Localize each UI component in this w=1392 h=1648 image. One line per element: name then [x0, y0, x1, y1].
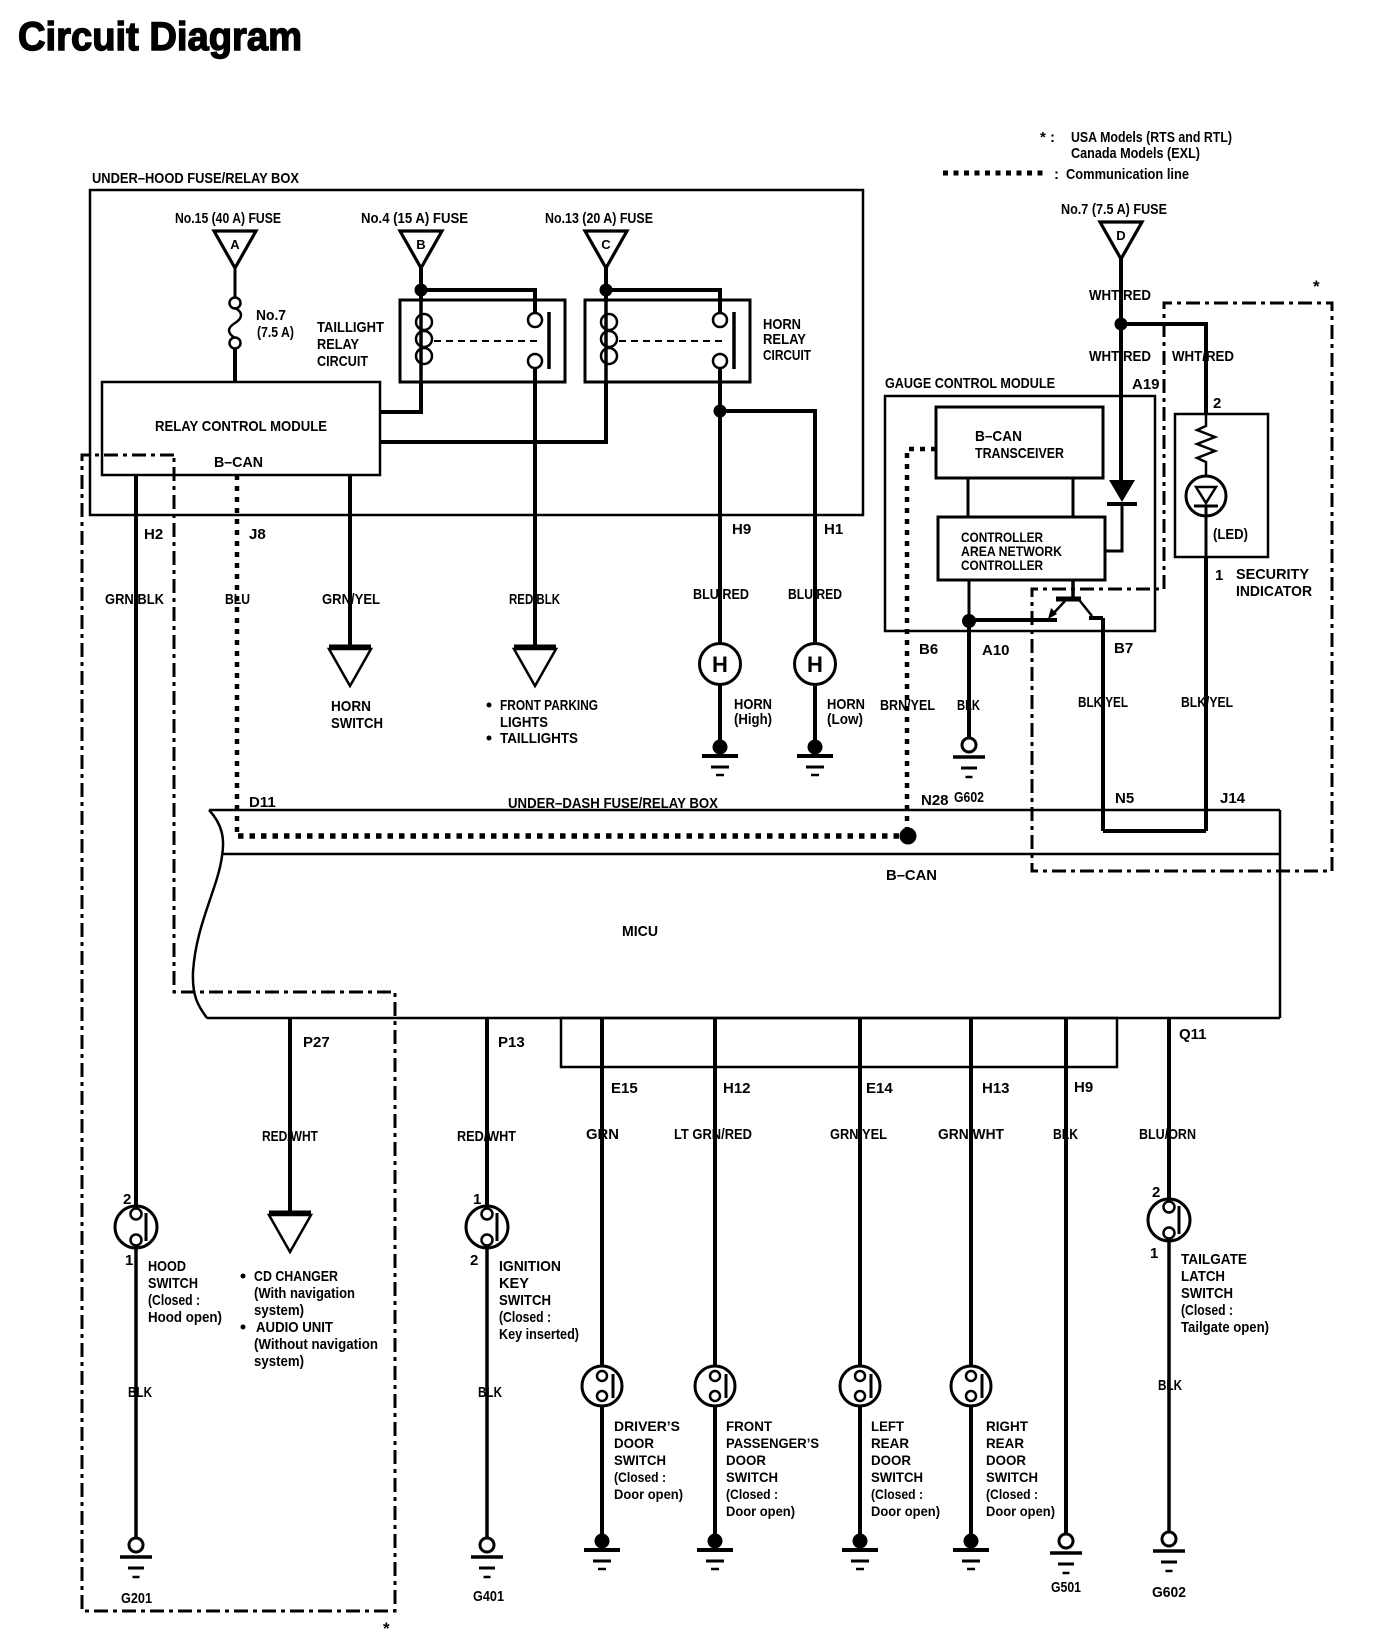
horn (low)	[795, 644, 836, 685]
svg-text:B: B	[416, 237, 425, 252]
ground G401	[471, 1538, 503, 1577]
horn relay	[585, 300, 750, 382]
svg-text:(Closed :: (Closed :	[986, 1486, 1038, 1502]
svg-text:GRN: GRN	[586, 1126, 619, 1143]
wire B-CAN communication line inside under-dash box	[238, 833, 901, 839]
wire fuse C to horn relay coil	[604, 268, 608, 302]
svg-text:No.4 (15 A) FUSE: No.4 (15 A) FUSE	[361, 210, 468, 227]
svg-text:D: D	[1116, 228, 1125, 243]
svg-text:E14: E14	[866, 1080, 893, 1097]
dash-dot optional-equipment boundary (right, USA models)	[1032, 303, 1332, 871]
svg-text:INDICATOR: INDICATOR	[1236, 583, 1312, 600]
svg-text:CONTROLLER: CONTROLLER	[961, 557, 1043, 573]
svg-text:IGNITION: IGNITION	[499, 1258, 561, 1275]
tailgate latch switch	[1148, 1199, 1190, 1241]
svg-text:(Closed :: (Closed :	[499, 1309, 551, 1326]
svg-text:(Without navigation: (Without navigation	[254, 1336, 378, 1353]
svg-text:2: 2	[1152, 1184, 1160, 1201]
wire No.7 fuse to relay control module	[233, 348, 237, 382]
B-CAN transceiver box	[936, 407, 1103, 478]
node WHT/RED junction	[1115, 318, 1128, 331]
wire branch to security indicator pin 2	[1121, 324, 1206, 414]
legend: communication line sample	[943, 171, 1046, 176]
svg-text:1: 1	[1215, 567, 1223, 584]
svg-text:BLU/RED: BLU/RED	[788, 586, 842, 603]
left rear door switch	[840, 1366, 880, 1406]
transistor Q1	[1056, 597, 1081, 602]
node horn output junction	[714, 405, 727, 418]
ground G501	[1050, 1534, 1082, 1573]
wire taillight relay contact output (RED/BLK)	[533, 369, 537, 646]
fuse A	[214, 231, 256, 268]
wire transceiver to CAN controller (left)	[967, 478, 970, 517]
wire hood switch BLK to ground	[134, 1248, 138, 1538]
wire ignition key switch BLK to ground	[485, 1248, 489, 1538]
svg-text:LT GRN/RED: LT GRN/RED	[674, 1126, 752, 1143]
fuse D	[1100, 222, 1142, 259]
svg-text:TAILGATE: TAILGATE	[1181, 1251, 1247, 1268]
svg-text:No.15 (40 A) FUSE: No.15 (40 A) FUSE	[175, 210, 281, 227]
svg-text:G602: G602	[1152, 1584, 1186, 1601]
svg-text:Hood open): Hood open)	[148, 1309, 222, 1326]
svg-text:(7.5 A): (7.5 A)	[257, 324, 294, 341]
svg-text:GRN/YEL: GRN/YEL	[830, 1126, 887, 1143]
svg-text:P27: P27	[303, 1034, 330, 1051]
svg-text:(Closed :: (Closed :	[614, 1469, 666, 1485]
wire CAN controller to transistor base	[1071, 580, 1075, 597]
svg-text:N5: N5	[1115, 790, 1134, 807]
svg-text:A10: A10	[982, 642, 1010, 659]
svg-text::: :	[1054, 166, 1059, 183]
svg-text:BLK: BLK	[1158, 1377, 1182, 1394]
right rear door switch	[951, 1366, 991, 1406]
svg-text:(Low): (Low)	[827, 711, 863, 728]
relay control module U1	[102, 382, 380, 475]
wire N5 to J14 inside under-dash box	[1103, 829, 1206, 833]
wire J14 (BLK/YEL) from security indicator	[1204, 557, 1208, 831]
wire A10 (BLK) to ground	[967, 621, 971, 738]
wire P27 (RED/WHT) to CD changer	[288, 1018, 292, 1212]
svg-text:KEY: KEY	[499, 1275, 529, 1292]
svg-text:H9: H9	[1074, 1079, 1093, 1096]
wire transceiver to CAN controller (right)	[1072, 478, 1075, 517]
svg-text:SWITCH: SWITCH	[726, 1469, 778, 1485]
svg-text:Door open): Door open)	[726, 1503, 795, 1519]
wire left rear door switch to ground	[858, 1406, 862, 1538]
svg-text:* :: * :	[1040, 129, 1055, 146]
svg-text:1: 1	[125, 1252, 133, 1269]
svg-text:B–CAN: B–CAN	[975, 428, 1022, 445]
svg-text:DOOR: DOOR	[871, 1452, 911, 1468]
svg-text:GRN/YEL: GRN/YEL	[322, 591, 380, 608]
svg-text:1: 1	[473, 1191, 481, 1208]
wire GRN/YEL to horn switch	[348, 475, 352, 646]
svg-text:BLK: BLK	[957, 697, 980, 714]
svg-text:Door open): Door open)	[986, 1503, 1055, 1519]
wire horn relay coil to relay control module	[380, 382, 606, 442]
ground left rear door switch	[842, 1534, 878, 1570]
wire B6 communication line to N28	[907, 449, 936, 836]
svg-text:No.7: No.7	[256, 307, 286, 324]
svg-text:HOOD: HOOD	[148, 1258, 186, 1275]
svg-text:BLU/RED: BLU/RED	[693, 586, 749, 603]
wire driver's door switch to ground	[600, 1406, 604, 1538]
svg-text:H: H	[712, 652, 728, 677]
svg-text:2: 2	[1213, 395, 1221, 412]
wire front passenger's door switch to ground	[713, 1406, 717, 1538]
svg-text:SWITCH: SWITCH	[986, 1469, 1038, 1485]
svg-text:SECURITY: SECURITY	[1236, 566, 1309, 583]
wire taillight relay coil to relay control module	[380, 382, 421, 412]
wire LED to box bottom	[1205, 506, 1208, 557]
ground A10	[953, 738, 985, 777]
svg-text:Communication line: Communication line	[1066, 166, 1189, 183]
svg-text:Door open): Door open)	[871, 1503, 940, 1519]
svg-text:UNDER–HOOD FUSE/RELAY BOX: UNDER–HOOD FUSE/RELAY BOX	[92, 170, 299, 187]
svg-text:REAR: REAR	[871, 1435, 909, 1451]
svg-text:2: 2	[470, 1252, 478, 1269]
svg-text:WHT/RED: WHT/RED	[1172, 348, 1234, 365]
svg-text:(Closed :: (Closed :	[148, 1292, 200, 1309]
svg-text:BRN/YEL: BRN/YEL	[880, 697, 935, 714]
svg-text:BLU/ORN: BLU/ORN	[1139, 1126, 1196, 1143]
svg-text:Tailgate open): Tailgate open)	[1181, 1319, 1269, 1336]
wire CAN controller to A10 node	[968, 580, 971, 621]
fuse No.7 (7.5 A) inline	[230, 298, 241, 309]
svg-text:J8: J8	[249, 526, 266, 543]
wire P13 (RED/WHT) to ignition key switch	[485, 1018, 489, 1206]
wire transistor collector to B7	[1091, 616, 1103, 618]
svg-text:(Closed :: (Closed :	[871, 1486, 923, 1502]
svg-text:CIRCUIT: CIRCUIT	[763, 347, 811, 364]
svg-text:(LED): (LED)	[1213, 526, 1248, 543]
svg-text:H12: H12	[723, 1080, 751, 1097]
svg-text:RIGHT: RIGHT	[986, 1418, 1028, 1434]
svg-text:system): system)	[254, 1353, 304, 1370]
svg-text:(High): (High)	[734, 711, 772, 728]
wire tailgate latch switch BLK to ground	[1167, 1241, 1171, 1532]
resistor R1	[1197, 414, 1215, 487]
hood switch	[115, 1206, 157, 1248]
svg-text:system): system)	[254, 1302, 304, 1319]
CD changer arrow	[269, 1213, 311, 1252]
svg-text:(With navigation: (With navigation	[254, 1285, 355, 1302]
svg-text:(Closed :: (Closed :	[1181, 1302, 1233, 1319]
LED indicator lamp	[1186, 476, 1226, 516]
svg-text:RED/WHT: RED/WHT	[457, 1128, 516, 1145]
ground G602 (tailgate)	[1153, 1532, 1185, 1571]
svg-text:E15: E15	[611, 1080, 638, 1097]
ground driver's door switch	[584, 1534, 620, 1570]
svg-text:BLU: BLU	[225, 591, 250, 608]
wire horn low to ground	[813, 685, 817, 742]
ground horn low	[797, 740, 833, 776]
svg-text:FRONT: FRONT	[726, 1418, 772, 1434]
svg-text:SWITCH: SWITCH	[148, 1275, 198, 1292]
svg-text:BLK: BLK	[478, 1384, 502, 1401]
svg-text:RED/WHT: RED/WHT	[262, 1128, 318, 1145]
svg-text:A: A	[230, 237, 240, 252]
ground G201	[120, 1538, 152, 1577]
wire fuse C branch to horn relay contact	[606, 290, 720, 314]
svg-text:B–CAN: B–CAN	[886, 867, 937, 884]
svg-text:2: 2	[123, 1191, 131, 1208]
svg-text:P13: P13	[498, 1034, 525, 1051]
svg-text:LEFT: LEFT	[871, 1418, 904, 1434]
ground right rear door switch	[953, 1534, 989, 1570]
svg-text:No.7 (7.5 A) FUSE: No.7 (7.5 A) FUSE	[1061, 201, 1167, 218]
wire right rear door switch to ground	[969, 1406, 973, 1538]
svg-text:GRN/BLK: GRN/BLK	[105, 591, 164, 608]
svg-text:CD CHANGER: CD CHANGER	[254, 1268, 338, 1285]
node fuse B junction	[415, 284, 428, 297]
security indicator box	[1175, 414, 1268, 557]
wire diode cathode to CAN controller	[1105, 504, 1122, 551]
svg-text:BLK: BLK	[128, 1384, 152, 1401]
svg-text:G401: G401	[473, 1588, 504, 1605]
svg-text:HORN: HORN	[331, 698, 371, 715]
svg-text:DOOR: DOOR	[986, 1452, 1026, 1468]
svg-text:FRONT PARKING: FRONT PARKING	[500, 697, 598, 714]
svg-text:D11: D11	[249, 794, 276, 811]
wire fuse D down (WHT/RED)	[1119, 259, 1123, 480]
svg-text:GRN/WHT: GRN/WHT	[938, 1126, 1004, 1143]
svg-text:1: 1	[1150, 1245, 1158, 1262]
svg-text:A19: A19	[1132, 376, 1160, 393]
svg-text:B–CAN: B–CAN	[214, 454, 263, 471]
wire E14 (GRN/YEL) to left rear door switch	[858, 1018, 862, 1366]
svg-text:REAR: REAR	[986, 1435, 1024, 1451]
wire Q11 (BLU/ORN) to tailgate latch switch	[1167, 1018, 1171, 1199]
ignition key switch	[466, 1206, 508, 1248]
svg-text:*: *	[1313, 277, 1320, 296]
svg-text:*: *	[383, 1619, 390, 1638]
svg-text:RELAY: RELAY	[763, 331, 806, 348]
wire fuse B branch to taillight relay contact	[421, 290, 535, 314]
svg-text:(Closed :: (Closed :	[726, 1486, 778, 1502]
svg-text:G201: G201	[121, 1590, 152, 1607]
horn switch arrow	[329, 647, 371, 686]
ground front passenger's door switch	[697, 1534, 733, 1570]
fuse C	[585, 231, 627, 268]
svg-text:H: H	[807, 652, 823, 677]
wire H2 from relay control module to hood switch	[134, 475, 138, 1206]
wire fuse B to taillight relay coil	[419, 268, 423, 302]
driver's door switch	[582, 1366, 622, 1406]
svg-text:BLK/YEL: BLK/YEL	[1078, 694, 1128, 711]
svg-text:SWITCH: SWITCH	[871, 1469, 923, 1485]
gauge control module box	[885, 396, 1155, 631]
svg-text:Canada Models (EXL): Canada Models (EXL)	[1071, 145, 1200, 162]
svg-text:TRANSCEIVER: TRANSCEIVER	[975, 445, 1064, 462]
svg-text:SWITCH: SWITCH	[499, 1292, 551, 1309]
under-dash fuse/relay box (MICU) outline	[193, 810, 1280, 1018]
diode D1	[1109, 480, 1135, 502]
wire H12 (LT GRN/RED) to front passenger's door switch	[713, 1018, 717, 1366]
ground horn high	[702, 740, 738, 776]
svg-text:J14: J14	[1220, 790, 1246, 807]
taillight relay	[400, 300, 565, 382]
svg-text:MICU: MICU	[622, 923, 658, 940]
svg-text:Key inserted): Key inserted)	[499, 1326, 579, 1343]
svg-text:DOOR: DOOR	[726, 1452, 766, 1468]
wire H9 (BLK) to ground G501	[1064, 1018, 1068, 1534]
svg-text:LIGHTS: LIGHTS	[500, 714, 548, 731]
svg-text:LATCH: LATCH	[1181, 1268, 1225, 1285]
svg-text:RELAY: RELAY	[317, 336, 359, 353]
svg-text:G501: G501	[1051, 1579, 1081, 1596]
svg-text:H1: H1	[824, 521, 843, 538]
wire E15 (GRN) to driver's door switch	[600, 1018, 604, 1366]
svg-text:TAILLIGHT: TAILLIGHT	[317, 319, 384, 336]
svg-text:G602: G602	[954, 789, 984, 806]
svg-text:No.13 (20 A) FUSE: No.13 (20 A) FUSE	[545, 210, 653, 227]
dash-dot optional-equipment boundary (left)	[82, 455, 395, 1611]
svg-text:CIRCUIT: CIRCUIT	[317, 353, 368, 370]
wire horn relay contact output to H9	[718, 369, 722, 643]
svg-text:PASSENGER’S: PASSENGER’S	[726, 1435, 819, 1451]
svg-text:SWITCH: SWITCH	[614, 1452, 666, 1468]
wire B7 (BLK/YEL) to N5	[1101, 618, 1105, 831]
svg-text:RED/BLK: RED/BLK	[509, 591, 560, 608]
svg-text:AUDIO UNIT: AUDIO UNIT	[256, 1319, 333, 1336]
front passenger's door switch	[695, 1366, 735, 1406]
wire branch to H1	[720, 411, 815, 643]
svg-text:Circuit Diagram: Circuit Diagram	[18, 15, 302, 59]
svg-text:H9: H9	[732, 521, 751, 538]
svg-text:DOOR: DOOR	[614, 1435, 654, 1451]
svg-text:H2: H2	[144, 526, 163, 543]
fuse B	[400, 231, 442, 268]
front parking lights arrow	[514, 647, 556, 686]
svg-text:N28: N28	[921, 792, 949, 809]
wire H13 (GRN/WHT) to right rear door switch	[969, 1018, 973, 1366]
svg-text:GAUGE CONTROL MODULE: GAUGE CONTROL MODULE	[885, 375, 1055, 392]
wire J8 B-CAN communication line to D11	[235, 475, 240, 836]
svg-text:RELAY CONTROL MODULE: RELAY CONTROL MODULE	[155, 418, 327, 435]
svg-text:Door open): Door open)	[614, 1486, 683, 1502]
svg-text:SWITCH: SWITCH	[331, 715, 383, 732]
wire transistor emitter to A10 node	[969, 618, 1057, 622]
svg-text:B6: B6	[919, 641, 938, 658]
node A10 junction	[962, 614, 976, 628]
svg-text:TAILLIGHTS: TAILLIGHTS	[500, 730, 578, 747]
svg-text:USA Models (RTS and RTL): USA Models (RTS and RTL)	[1071, 129, 1232, 146]
svg-text:WHT/RED: WHT/RED	[1089, 287, 1151, 304]
svg-text:BLK: BLK	[1053, 1126, 1078, 1143]
controller area network controller box	[938, 517, 1105, 580]
svg-text:H13: H13	[982, 1080, 1010, 1097]
MICU connector row box	[561, 1018, 1117, 1067]
svg-text:B7: B7	[1114, 640, 1133, 657]
horn (high)	[700, 644, 741, 685]
svg-text:DRIVER’S: DRIVER’S	[614, 1418, 680, 1434]
svg-text:C: C	[601, 237, 611, 252]
wire horn high to ground	[718, 685, 722, 742]
node B-CAN junction	[900, 828, 917, 845]
wire fuse A to No.7 fuse	[234, 268, 237, 298]
svg-text:Q11: Q11	[1179, 1026, 1207, 1043]
node fuse C junction	[600, 284, 613, 297]
svg-text:WHT/RED: WHT/RED	[1089, 348, 1151, 365]
svg-text:SWITCH: SWITCH	[1181, 1285, 1233, 1302]
